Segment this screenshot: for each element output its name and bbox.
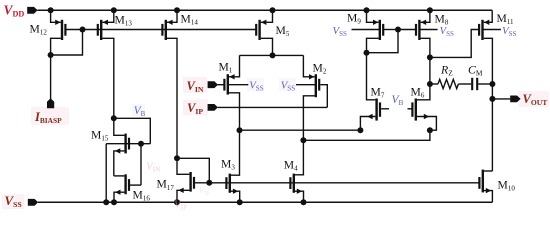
VIN label: [187, 79, 204, 94]
IBIASP label: [34, 110, 62, 125]
VSS label: [5, 194, 22, 209]
label CM: [468, 63, 483, 78]
wire M16 drain: [114, 175, 125, 177]
node M9 drain junction: [364, 50, 370, 56]
node bulk-VSS junction: [103, 199, 109, 205]
transistor M2: [309, 74, 319, 97]
node M17-VSS junction: [174, 199, 180, 205]
wire M6 drain: [417, 84, 430, 100]
wire RZ-CM lead: [458, 83, 471, 85]
svg-text:M10: M10: [498, 179, 516, 193]
wire M3 drain: [231, 130, 240, 175]
wire M17 diode link: [177, 158, 209, 183]
wire M9 gate lead: [383, 29, 398, 31]
wire M1 bulk stub: [228, 84, 249, 86]
wire M17 drain: [177, 158, 189, 174]
wire M9 drain: [367, 38, 379, 52]
label M14: [181, 13, 199, 27]
wire M13 source: [102, 10, 113, 22]
resistor RZ: [438, 79, 458, 88]
label M10: [498, 179, 516, 193]
ghost text VIN: [146, 161, 161, 174]
wire CM lead: [478, 83, 492, 85]
node M2-M4 drain: [300, 137, 306, 143]
transistor M4: [290, 174, 302, 194]
wire M12 source: [51, 10, 61, 22]
node rail-M14 junction: [174, 7, 180, 13]
node rail-M13 junction: [111, 7, 117, 13]
node CM-output junction: [489, 81, 495, 87]
svg-text:VSS: VSS: [333, 25, 348, 38]
wire M6 gate stub: [408, 108, 413, 110]
VOUT terminal: [510, 96, 520, 103]
wire M8 bulk stub: [419, 29, 437, 31]
svg-text:M12: M12: [30, 23, 48, 37]
label M1: [219, 61, 233, 75]
wire M5 source: [261, 10, 273, 22]
VDD label: [4, 3, 25, 19]
wire M8 source: [421, 10, 430, 22]
label M8: [435, 12, 449, 26]
wire RZ lead: [430, 83, 438, 85]
label M4: [284, 158, 298, 172]
label M5: [276, 24, 290, 38]
wire M8 drain: [421, 38, 430, 57]
wire M11 gate link: [430, 30, 479, 58]
VIP terminal: [208, 104, 218, 111]
wire VDD rail: [37, 9, 492, 11]
wire M4 drain: [295, 140, 303, 175]
label background tints: [2, 77, 549, 209]
node M3-VSS junction: [237, 199, 243, 205]
wire M12 drain: [51, 38, 61, 55]
transistor M13: [98, 20, 108, 40]
node M16-VSS junction: [111, 199, 117, 205]
wire M11 bulk stub: [483, 29, 501, 31]
node M7 source junction: [357, 127, 363, 133]
wire M7 gate stub: [381, 108, 389, 110]
wire M12 diode link: [51, 30, 83, 56]
transistor M5: [256, 20, 266, 40]
label M16: [133, 188, 151, 202]
wire M8 gate lead: [398, 29, 416, 31]
label M15: [91, 129, 109, 143]
wire M11 source: [484, 10, 493, 22]
VOUT label: [523, 92, 548, 107]
node NMOS bus junction: [206, 180, 212, 186]
label M8 bulk VSS: [440, 25, 455, 38]
node M12 drain-gate: [48, 52, 54, 58]
node M1-M3 drain: [237, 127, 243, 133]
node rail-M5 junction: [270, 7, 276, 13]
wire output to M10: [491, 99, 493, 171]
transistor M1: [224, 74, 234, 95]
wire NMOS gate bus: [194, 182, 479, 184]
svg-text:VDD: VDD: [4, 3, 25, 19]
node M14-M17 junction: [174, 155, 180, 161]
svg-text:M6: M6: [411, 86, 425, 100]
label M12: [30, 23, 48, 37]
svg-text:M13: M13: [115, 14, 133, 28]
node rail-M9 junction: [364, 7, 370, 13]
wire M3 source: [231, 191, 240, 202]
label M1 bulk VSS: [249, 79, 264, 92]
wire tail line: [240, 54, 304, 56]
ghost text VIP: [174, 199, 187, 212]
VSS terminal: [28, 199, 38, 206]
svg-text:RZ: RZ: [440, 63, 453, 78]
svg-text:M16: M16: [133, 188, 151, 202]
svg-text:M14: M14: [181, 13, 199, 27]
transistor M11: [479, 20, 489, 40]
wire M1 drain: [229, 93, 240, 130]
node M15-M16 gate tie: [138, 141, 144, 147]
wire PMOS gate bus: [65, 29, 256, 31]
svg-text:VIP: VIP: [199, 185, 210, 197]
wire M15 bulk drop: [105, 144, 107, 203]
wire M1 gate: [218, 84, 225, 86]
svg-text:VB: VB: [392, 94, 404, 107]
svg-text:VIN: VIN: [146, 161, 161, 174]
label RZ: [440, 63, 453, 78]
wire M9 diode tie: [367, 30, 399, 53]
svg-text:M7: M7: [371, 86, 385, 100]
transistor M15: [115, 134, 129, 154]
svg-text:M1: M1: [219, 61, 233, 75]
label M17: [157, 178, 175, 192]
wire M7 source: [360, 117, 375, 131]
wire M14 drain: [167, 38, 177, 158]
node RZ left junction: [427, 81, 433, 87]
VIN terminal: [208, 81, 218, 88]
node M9-M8 gate: [395, 27, 401, 33]
wire M9 bulk stub: [352, 29, 380, 31]
svg-text:M9: M9: [347, 11, 361, 25]
wire node A line: [240, 129, 361, 131]
svg-text:VSS: VSS: [502, 25, 517, 38]
svg-text:M17: M17: [157, 178, 175, 192]
wire M6 source: [417, 117, 436, 131]
IBIASP terminal: [47, 98, 54, 108]
label VB cascode: [392, 94, 404, 107]
label M11 bulk VSS: [502, 25, 517, 38]
label M9: [347, 11, 361, 25]
label M13: [115, 14, 133, 28]
node rail-M12 junction: [48, 7, 54, 13]
svg-text:M15: M15: [91, 129, 109, 143]
wire M9 source: [367, 10, 379, 22]
capacitor CM: [472, 78, 477, 90]
label M6: [411, 86, 425, 100]
wire M15 source: [114, 151, 125, 176]
transistor M3: [226, 174, 238, 194]
node VB: [111, 115, 117, 121]
transistor M7: [367, 99, 380, 121]
label M3: [221, 158, 235, 172]
wire M15 gate line and bulk line: [106, 143, 150, 145]
wire M8 drain to M6: [429, 57, 431, 84]
node gate bus junction: [80, 27, 86, 33]
wire M1 source: [229, 55, 240, 76]
node M4-VSS junction: [301, 199, 307, 205]
wire M14 source: [167, 10, 177, 22]
transistor M14: [162, 20, 172, 40]
wire M2 bulk stub: [296, 84, 316, 86]
label M7: [371, 86, 385, 100]
wire M10 drain: [484, 170, 492, 172]
wire VOUT lead: [492, 98, 510, 100]
wire node B line: [303, 130, 430, 140]
label M2 bulk VSS: [281, 79, 296, 92]
wire M5 drain: [261, 38, 273, 55]
wire M2 gate riser: [320, 85, 327, 108]
node M8 drain junction: [427, 54, 433, 60]
wire M4 source: [295, 191, 304, 202]
wire VSS rail: [38, 201, 492, 203]
wire M15 drain: [114, 118, 125, 135]
transistor M6: [412, 99, 429, 121]
transistor M17: [178, 172, 194, 193]
wire M2 source: [303, 55, 314, 76]
wire M10 source: [484, 191, 492, 203]
node output-VOUT: [489, 96, 495, 102]
svg-text:VSS: VSS: [440, 25, 455, 38]
wire gate tie riser: [140, 144, 142, 185]
wire M16 source: [114, 192, 124, 202]
transistor M10: [479, 170, 491, 194]
wire M16 gate lead: [130, 184, 141, 186]
svg-text:M4: M4: [284, 158, 298, 172]
node M6 source junction: [427, 127, 433, 133]
svg-text:M2: M2: [313, 62, 327, 76]
node tail: [270, 52, 276, 58]
wire M7 drain: [367, 53, 376, 100]
transistor M8: [416, 20, 426, 40]
transistor M12: [55, 20, 65, 40]
wire VB loop: [114, 118, 151, 143]
svg-text:VIP: VIP: [174, 199, 187, 211]
transistor M16: [115, 174, 129, 195]
label M2: [313, 62, 327, 76]
VDD terminal: [27, 7, 37, 14]
wire M11 drain: [484, 38, 493, 99]
label M11: [497, 12, 515, 26]
node rail-M8 junction: [427, 7, 433, 13]
label M9 bulk VSS: [333, 25, 348, 38]
svg-text:CM: CM: [468, 63, 483, 78]
wire IBIASP stem: [50, 55, 52, 99]
VIP label: [187, 101, 203, 116]
wire VIP: [218, 106, 327, 108]
wire M17 source: [177, 190, 189, 202]
wire M2 drain: [303, 96, 314, 141]
svg-text:M5: M5: [276, 24, 290, 38]
label VB: [134, 105, 146, 118]
svg-text:M3: M3: [221, 158, 235, 172]
wire M13 drain: [102, 38, 113, 118]
transistor M9: [373, 20, 383, 40]
ghost text VIP small: [199, 185, 210, 197]
